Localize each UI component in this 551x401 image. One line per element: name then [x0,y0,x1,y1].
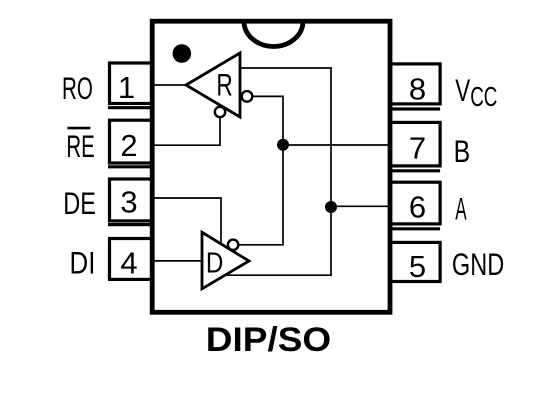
svg-text:6: 6 [409,190,426,225]
svg-text:4: 4 [120,245,137,280]
svg-text:RE: RE [66,128,94,164]
svg-text:3: 3 [120,185,137,220]
svg-text:B: B [454,133,471,169]
pin 5 box [390,242,440,281]
wire RE: pin 2 to receiver enable bubble [152,118,220,145]
junction node net A [325,201,337,213]
wire net A branch to pin 6 [331,205,390,207]
svg-text:A: A [455,191,466,227]
svg-text:5: 5 [409,249,426,284]
pin 4 box [110,239,153,280]
separator line pins 8-7 [390,107,440,110]
separator line pins 1-2 [108,106,152,109]
svg-text:DI: DI [70,244,96,280]
receiver enable bubble [215,107,225,117]
pin 3 box [110,179,153,221]
driver inverting output bubble [228,240,238,250]
separator line pins 3-4 [108,223,152,226]
svg-text:DE: DE [63,185,96,221]
wire RO: pin 1 to receiver output [152,84,188,86]
svg-text:V: V [455,72,470,108]
separator line pins 7-6 [390,169,440,172]
separator line pins 6-5 [390,227,440,230]
svg-text:D: D [206,246,223,279]
notch (pin-1 end indicator) [244,21,303,46]
pin 7 box [390,122,440,165]
svg-text:DIP/SO: DIP/SO [206,321,331,359]
wire DI: pin 4 to driver input [152,260,202,262]
pin 6 box [390,182,440,224]
pin 1 box [110,63,153,104]
svg-text:1: 1 [118,70,135,105]
IC body U1 [152,21,390,312]
svg-text:GND: GND [452,246,504,282]
svg-text:2: 2 [120,128,137,163]
pin 8 box [390,64,440,104]
wire net B: receiver inverting input to driver inverting output [239,96,284,244]
wire DE: pin 3 to driver enable [152,198,221,244]
svg-text:8: 8 [409,72,426,107]
op-amp receiver R1 triangle [186,53,240,117]
wire net B branch to pin 7 [283,144,390,146]
svg-text:RO: RO [62,70,93,106]
svg-text:CC: CC [470,81,497,112]
svg-text:R: R [216,67,232,103]
pin 1 dot indicator [173,44,192,63]
svg-text:7: 7 [409,131,426,166]
separator line pins 2-3 [108,165,152,168]
receiver inverting input bubble [242,91,253,102]
overline on RE [67,127,90,130]
junction node net B [277,139,289,151]
wire net A: receiver noninverting input to driver output [224,68,331,275]
op-amp driver D1 triangle [202,232,249,288]
pin 2 box [110,120,153,163]
